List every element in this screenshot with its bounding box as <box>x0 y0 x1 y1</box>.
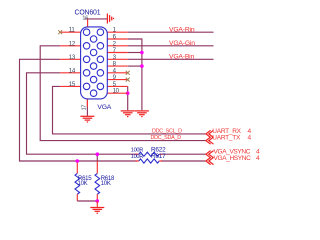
junction pin8/gnd <box>140 64 144 68</box>
svg-text:14: 14 <box>69 67 76 74</box>
wire: pin 12 -> DDC_SDA_D -> UART_TX <box>40 46 206 141</box>
pin 8 <box>97 65 128 67</box>
pin 10 <box>97 92 128 94</box>
connector holes left column (pins 11-15) <box>83 29 103 97</box>
pin 13 <box>60 58 83 60</box>
pin 3 <box>104 58 128 60</box>
svg-text:R617: R617 <box>151 153 166 160</box>
off-page connector VGA_VSYNC <box>206 151 214 158</box>
wire: pin 5 down to pin 10 and ground <box>127 86 129 110</box>
svg-text:12: 12 <box>69 40 76 47</box>
pin 11 <box>60 31 83 33</box>
junction pin7/gnd <box>140 51 144 55</box>
middle column (pins 6-10) <box>90 36 97 43</box>
svg-text:VGA: VGA <box>97 104 111 111</box>
wire: VGA-Gin net (pin 2) <box>128 45 214 47</box>
svg-text:DDC_SDA_D: DDC_SDA_D <box>151 135 182 141</box>
svg-text:4: 4 <box>248 135 252 142</box>
svg-text:UART_TX: UART_TX <box>212 135 241 142</box>
wire: resistor bottoms <box>77 200 97 202</box>
connector CON601 pins (red stubs) <box>60 32 128 93</box>
svg-text:VGA-Gin: VGA-Gin <box>169 40 195 47</box>
ground (sideways, shield) <box>107 14 113 24</box>
off-page connector UART_RX <box>206 130 214 137</box>
pin 16 stub <box>87 19 89 27</box>
wire: pin 7 <box>128 52 142 54</box>
no-connect X pin 9 <box>126 78 130 82</box>
svg-text:DDC_SCL_D: DDC_SCL_D <box>152 128 182 134</box>
svg-text:VGA-Bin: VGA-Bin <box>169 53 194 60</box>
junction R615/HSYNC <box>76 159 80 163</box>
svg-text:100R: 100R <box>131 154 143 160</box>
svg-text:13: 13 <box>69 54 76 61</box>
junction R618/VSYNC <box>96 152 100 156</box>
wire: pin 8 <box>128 65 142 67</box>
wire: VGA-Bin net (pin 3) <box>128 58 214 60</box>
no-connect X pin 11 <box>58 30 62 34</box>
svg-text:100R: 100R <box>131 147 143 153</box>
svg-text:15: 15 <box>69 81 76 88</box>
pin numbers left side <box>69 27 76 88</box>
svg-text:10K: 10K <box>78 181 88 187</box>
junction bottom <box>96 199 100 203</box>
pin 6 <box>97 38 128 40</box>
wire: VGA-Rin net (pin 1) <box>128 31 214 33</box>
pin 14 <box>60 72 83 74</box>
svg-text:VGA-Rin: VGA-Rin <box>169 26 195 33</box>
resistor R622 100R (horizontal, VSYNC row) <box>131 146 166 156</box>
ground (pins 5,10) <box>121 111 135 117</box>
pin 4 <box>104 72 128 74</box>
connector CON601 body <box>81 27 108 99</box>
svg-text:17: 17 <box>82 105 88 111</box>
pin numbers right side <box>113 27 120 95</box>
pin 9 <box>97 79 128 81</box>
svg-text:4: 4 <box>256 155 260 162</box>
svg-text:11: 11 <box>69 27 76 34</box>
svg-text:10: 10 <box>113 88 120 95</box>
off-page connector UART_TX <box>206 137 214 144</box>
ground (shell pin 17) <box>80 116 94 122</box>
wire: pin 15 -> DDC_SCL_D -> UART_RX <box>53 86 206 133</box>
svg-text:10K: 10K <box>101 181 111 187</box>
pin 17 stub <box>86 99 88 116</box>
pin 1 <box>104 31 128 33</box>
ground (pins 6,7,8) <box>135 111 149 117</box>
wire: pin 13 -> HSYNC row <box>20 59 138 161</box>
pin 5 <box>104 85 128 87</box>
wire: pin 14 -> VSYNC row <box>27 73 138 154</box>
wire to ground <box>96 201 98 207</box>
junction pin10 <box>126 91 130 95</box>
wire: pin 6 to ground vertical <box>128 39 142 110</box>
wire: top shell wire to sideways ground <box>85 18 107 20</box>
resistor R618 10K (vertical) <box>95 154 115 201</box>
pin 15 <box>60 85 83 87</box>
right column (pins 1-5) <box>97 29 104 36</box>
pin 2 <box>104 45 128 47</box>
no-connect X pin 4 <box>126 71 130 75</box>
svg-text:VGA_HSYNC: VGA_HSYNC <box>214 155 252 162</box>
pin 12 <box>60 45 83 47</box>
resistor R615 10K (vertical) <box>75 161 92 201</box>
svg-text:16: 16 <box>82 15 88 21</box>
resistor R617 100R (horizontal, HSYNC row) <box>131 153 166 163</box>
ground (below R615/R618) <box>90 208 104 214</box>
pin 7 <box>97 52 128 54</box>
off-page connector VGA_HSYNC <box>206 157 214 164</box>
